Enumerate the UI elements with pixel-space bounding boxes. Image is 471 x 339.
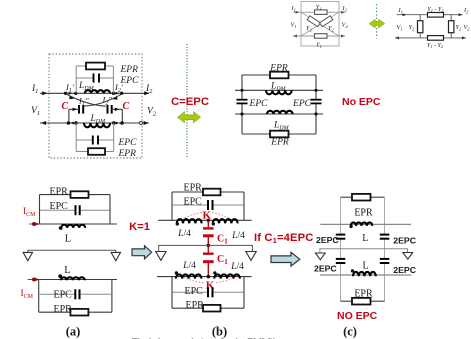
port triangle b-right <box>246 252 256 261</box>
caption (c) <box>343 325 357 339</box>
arrow bottom-left lattice <box>293 35 297 38</box>
resistor Y2 diag B <box>320 16 333 27</box>
arrow I2 lattice <box>341 11 345 14</box>
lattice box <box>301 2 339 47</box>
label L a-top <box>65 234 71 245</box>
SECTION: top-left integrated filter model <box>31 54 157 159</box>
label EPC right <box>292 99 312 109</box>
svg-text:K=1: K=1 <box>129 221 150 233</box>
SECTION: top-right lattice and equivalent <box>291 2 471 50</box>
svg-text:NO EPC: NO EPC <box>337 310 378 322</box>
connector wire a <box>28 249 116 251</box>
node dots line2 <box>67 121 124 125</box>
svg-text:(c): (c) <box>343 325 357 339</box>
wire EPR bottom branch <box>76 151 114 153</box>
label EPR top <box>120 65 139 75</box>
resistor Y1-Y2 top <box>428 13 444 18</box>
wire main line b-top <box>158 219 251 221</box>
wire EPC bottom branch <box>76 139 114 141</box>
svg-text:EPC: EPC <box>50 201 69 212</box>
wire main line a-top <box>33 223 117 225</box>
svg-text:L/4: L/4 <box>230 262 244 272</box>
label L/4 b-bottom-right <box>230 262 244 272</box>
svg-text:L: L <box>362 233 368 244</box>
label EPC bottom <box>118 138 138 148</box>
equiv left vertical wire <box>419 15 421 38</box>
svg-text:L: L <box>362 261 368 272</box>
svg-text:L/4: L/4 <box>182 261 196 271</box>
coupling dashes K bottom <box>184 278 235 283</box>
wire red K to C1 <box>207 219 210 228</box>
wire EPC branch a-bottom <box>39 293 112 295</box>
label 2EPC c-top-right <box>393 235 416 245</box>
wire right vertical b-bottom <box>243 277 245 309</box>
node dots line1 <box>64 92 124 95</box>
label Y1-Y2 top <box>427 7 444 13</box>
svg-text:EPC: EPC <box>249 99 269 109</box>
svg-text:Y1 - Y2: Y1 - Y2 <box>427 7 444 13</box>
wire right vertical b-top <box>243 192 245 220</box>
wire top line 1 <box>40 92 149 94</box>
capacitor C right <box>108 105 112 114</box>
arrow I1 in <box>42 91 47 95</box>
arrow cyan b-to-c <box>271 252 300 266</box>
label Y1 top lattice <box>316 4 322 11</box>
wire EPR top branch <box>242 74 316 76</box>
port triangle c-left <box>315 253 325 260</box>
label EPC a-top <box>50 201 69 212</box>
label LDM top <box>78 81 95 92</box>
arrow V1 out (left) <box>41 121 46 125</box>
inductor LDM bottom <box>84 123 110 127</box>
arrow green double 2 <box>369 19 384 28</box>
label EPC left <box>249 99 269 109</box>
resistor Y2 right equiv <box>449 21 454 33</box>
svg-text:EPC: EPC <box>54 289 73 300</box>
wire EPR branch a-bottom <box>39 311 112 313</box>
caption (a) <box>66 325 81 339</box>
svg-text:EPR: EPR <box>54 304 73 315</box>
arrow I1 lattice <box>296 11 300 14</box>
lattice top wire <box>293 11 345 13</box>
arrow bottom-right equiv <box>462 36 466 39</box>
resistor Y2 diag A <box>307 16 320 27</box>
label Y2 right equiv <box>456 24 463 31</box>
label L a-bottom <box>64 265 70 276</box>
label I2 <box>145 84 153 95</box>
wire drop b-mid-right <box>251 245 253 251</box>
wire mid line c <box>319 248 408 250</box>
label L c-top <box>362 233 368 244</box>
label 2EPC c-bottom-left <box>314 264 337 274</box>
svg-text:EPC: EPC <box>118 138 138 148</box>
equiv top wire <box>397 14 463 16</box>
label EPC a-bottom <box>54 289 73 300</box>
inductor L a-bottom <box>58 274 85 280</box>
arrow V2 out (right) <box>140 121 149 125</box>
arrow I1 equiv <box>403 13 407 16</box>
label EPR a-bottom <box>54 304 73 315</box>
svg-text:EPC: EPC <box>292 99 312 109</box>
caption (b) <box>212 325 227 339</box>
label V1 <box>31 106 40 117</box>
label EPR c-bottom <box>354 288 373 299</box>
svg-text:EPR: EPR <box>50 187 69 198</box>
inductor LDM 1 <box>266 90 292 94</box>
resistor EPR c-top <box>352 194 371 201</box>
wire right vertical a-top <box>109 195 111 224</box>
svg-text:EPR: EPR <box>269 64 288 74</box>
arrow bottom-left equiv <box>395 36 399 39</box>
label V1 lattice <box>291 22 297 29</box>
faint cropped caption text <box>132 337 286 339</box>
lattice bottom wire <box>293 35 345 37</box>
wire left vertical a-bottom <box>38 280 40 313</box>
wire vertical to top branch right <box>112 66 114 93</box>
crossing wire from line1 right to left cap <box>84 94 122 106</box>
arrow I2 out <box>144 91 149 95</box>
wire vertical to top branch left <box>75 66 77 93</box>
arrow on crossing wire left <box>69 96 74 100</box>
label 2EPC c-bottom-right <box>393 265 416 275</box>
label C1 upper <box>217 234 228 246</box>
label Y1 bottom lattice <box>316 42 322 49</box>
resistor EPR a-bottom <box>70 309 88 316</box>
svg-text:EPC: EPC <box>120 76 140 86</box>
resistor Y1 top <box>315 10 328 15</box>
wire main line b-bottom <box>157 276 252 278</box>
label V2 lattice <box>342 22 349 29</box>
label L/4 b-top-right <box>231 231 245 241</box>
wire EPR branch b-bottom <box>172 307 244 309</box>
svg-text:C=EPC: C=EPC <box>171 96 209 108</box>
capacitor C1 upper (red) <box>203 228 214 245</box>
inductor L/4 b-top-right <box>212 219 238 225</box>
svg-text:L: L <box>64 265 70 276</box>
label V2 <box>147 107 157 118</box>
node dots rail1 <box>240 89 317 92</box>
wire drop c-left <box>319 249 321 253</box>
wire stub right cap to line2 <box>121 109 123 123</box>
label V1 equiv <box>397 24 403 31</box>
dashed boundary box <box>49 54 142 158</box>
wire drop c-right <box>407 249 409 253</box>
crossing wire from line1 left to right cap <box>66 94 106 106</box>
port triangle a-right <box>111 250 120 260</box>
capacitor C1 lower (red) <box>203 245 214 276</box>
wire EPR branch c-top <box>341 196 385 198</box>
label L/4 b-top-left <box>177 229 191 239</box>
SECTION: separators and middle circuit <box>171 44 381 157</box>
label ICM a-top <box>23 207 36 218</box>
svg-text:Y1 - Y2: Y1 - Y2 <box>427 43 444 49</box>
label EPR a-top <box>50 187 69 198</box>
svg-text:EPR: EPR <box>118 149 137 159</box>
svg-text:L/4: L/4 <box>231 231 245 241</box>
svg-text:EPR: EPR <box>354 208 373 219</box>
resistor Y1 bottom <box>315 34 328 39</box>
wire EPR top branch <box>76 65 113 67</box>
port triangle b-left <box>156 252 166 261</box>
wire bottom line 2 <box>40 122 149 124</box>
wire EPC top branch <box>76 77 113 79</box>
svg-text:2EPC: 2EPC <box>393 235 416 245</box>
wire rail1 <box>235 89 323 91</box>
inductor LDM 2 <box>267 111 293 114</box>
inductor LDM top <box>85 90 110 93</box>
wire vertical to bottom branch right <box>113 123 115 152</box>
svg-text:L/4: L/4 <box>177 229 191 239</box>
wire left vertical b-bottom <box>171 277 173 309</box>
label L c-bottom <box>362 261 368 272</box>
wire right vertical c <box>384 197 386 301</box>
label EPR c-top <box>354 208 373 219</box>
wire left vertical a-top <box>39 195 41 224</box>
label K b-top <box>203 210 212 222</box>
lattice diagonal wire B <box>301 12 339 36</box>
svg-text:EPR: EPR <box>186 300 205 311</box>
svg-text:C: C <box>123 101 130 112</box>
capacitor 2EPC c-bottom-left <box>336 259 346 263</box>
wire rail1 c <box>320 223 411 225</box>
wire EPR branch a-top <box>40 194 111 196</box>
arrow on crossing wire right <box>113 96 118 100</box>
label LDM top <box>270 82 287 93</box>
svg-text:EPC: EPC <box>184 197 203 208</box>
arrow cyan a-to-b <box>132 246 152 259</box>
inductor L/4 b-bottom-left <box>175 271 202 278</box>
equiv right vertical wire <box>450 15 452 38</box>
arrow ICM a-top <box>29 222 39 226</box>
separator dotted line 2 <box>376 4 378 39</box>
inductor L/4 b-bottom-right <box>213 271 240 278</box>
wire rail2 c <box>320 274 411 276</box>
svg-text:No EPC: No EPC <box>342 96 381 108</box>
svg-text:EPR: EPR <box>184 183 203 194</box>
resistor EPR top <box>270 72 289 79</box>
wire EPC branch a-top <box>40 209 111 211</box>
svg-text:L: L <box>65 234 71 245</box>
no-EPC circuit: left vertical wire <box>241 75 243 134</box>
no-EPC circuit: right vertical wire <box>315 75 317 134</box>
wire rail2 <box>235 113 323 115</box>
inductor L c-bottom <box>351 269 376 276</box>
label V2 equiv <box>464 24 471 31</box>
arrow green double <box>178 112 201 123</box>
wire EPR branch b-top <box>172 191 244 193</box>
label I1 lattice <box>291 5 296 12</box>
label If C1=4EPC <box>254 232 314 245</box>
wire into left cap with arrow <box>69 108 79 112</box>
label EPC b-top <box>184 197 203 208</box>
wire vertical to bottom branch left <box>75 123 77 152</box>
svg-text:2EPC: 2EPC <box>316 235 339 245</box>
capacitor EPC a-top <box>76 205 80 215</box>
lattice diagonal wire A <box>301 12 339 36</box>
label NO EPC <box>337 310 378 322</box>
inductor L/4 b-top-left <box>176 219 202 225</box>
capacitor 2EPC c-top-right <box>380 235 390 239</box>
label No EPC <box>342 96 381 108</box>
capacitor EPC bottom <box>93 136 98 145</box>
label I2 lattice <box>342 5 348 12</box>
resistor EPR a-top <box>71 191 89 198</box>
label I2dprime <box>102 95 113 107</box>
wire stub left cap to line2 <box>68 109 70 123</box>
capacitor C left <box>79 105 83 114</box>
resistor Y1-Y2 bottom <box>428 36 444 41</box>
resistor EPR b-bottom <box>203 305 221 312</box>
svg-text:EPC: EPC <box>185 286 204 297</box>
capacitor EPC top <box>94 74 100 83</box>
arrow bottom-right lattice <box>341 35 345 38</box>
label EPR bottom <box>118 149 137 159</box>
label I1 equiv <box>398 7 403 14</box>
label EPR b-bottom <box>186 300 205 311</box>
label Y2 left equiv <box>409 24 416 31</box>
wire EPC branch b-bottom <box>172 291 244 293</box>
wire EPC branch b-top <box>172 204 244 206</box>
label I1 <box>31 84 38 95</box>
svg-text:(a): (a) <box>66 325 81 339</box>
svg-text:EPR: EPR <box>354 288 373 299</box>
svg-text:EPR: EPR <box>270 138 289 148</box>
label EPR b-top <box>184 183 203 194</box>
label L/4 b-bottom-left <box>182 261 196 271</box>
inductor L c-top <box>349 222 372 228</box>
node dots rail2 <box>240 112 317 115</box>
label C=EPC <box>171 96 209 108</box>
capacitor EPC right <box>311 100 322 104</box>
SECTION: bottom (c) <box>314 194 417 339</box>
label EPR bottom <box>270 138 289 148</box>
svg-text:2EPC: 2EPC <box>314 264 337 274</box>
resistor EPR bottom <box>88 148 105 155</box>
wire out of right cap with arrow <box>112 108 123 112</box>
capacitor 2EPC c-top-left <box>336 235 346 239</box>
capacitor EPC b-top <box>208 200 213 210</box>
label I2 equiv <box>463 7 469 14</box>
wire EPR bottom branch <box>242 133 316 135</box>
label EPC b-bottom <box>185 286 204 297</box>
label LDM bottom <box>90 114 107 125</box>
inductor L a-top <box>59 225 85 230</box>
wire main line a-bottom <box>28 279 117 281</box>
svg-text:If C1=4EPC: If C1=4EPC <box>254 232 314 245</box>
label 2EPC c-top-left <box>316 235 339 245</box>
SECTION: bottom (a) <box>21 187 152 339</box>
label EPC top <box>120 76 140 86</box>
label EPR top <box>269 64 288 74</box>
resistor EPR top <box>86 63 105 70</box>
SECTION: bottom (b) <box>132 183 314 339</box>
separator dotted line <box>186 44 188 157</box>
coupling dashes K top <box>182 213 233 221</box>
label C left <box>62 101 69 112</box>
resistor EPR b-top <box>203 189 221 196</box>
wire drop b-mid-left <box>158 245 160 251</box>
svg-text:EPR: EPR <box>120 65 139 75</box>
label K b-bottom <box>206 280 215 292</box>
arrow I2 equiv <box>459 13 463 16</box>
svg-text:(b): (b) <box>212 325 227 339</box>
wire right vertical a-bottom <box>111 280 113 313</box>
svg-text:C: C <box>62 101 69 112</box>
wire mid line b <box>158 244 253 246</box>
port triangle c-right <box>403 253 413 260</box>
wire left vertical c <box>340 197 342 301</box>
label Y2 right lattice <box>328 25 335 32</box>
label C1 lower <box>217 254 228 266</box>
capacitor EPC left <box>237 100 248 104</box>
equiv bottom wire <box>395 37 466 39</box>
label K=1 <box>129 221 150 233</box>
label Y2 left lattice <box>306 25 313 32</box>
wire EPR branch c-bottom <box>341 300 385 302</box>
wire left vertical b-top <box>171 192 173 220</box>
label I2prime <box>114 82 123 94</box>
resistor Y2 left equiv <box>418 21 423 33</box>
label C right <box>123 101 130 112</box>
label ICM a-bottom <box>21 289 34 300</box>
node dot b-bottom <box>207 275 211 279</box>
label I1dprime <box>78 96 89 108</box>
capacitor 2EPC c-bottom-right <box>380 259 390 263</box>
port triangle a-left <box>23 250 32 260</box>
capacitor EPC b-bottom <box>208 287 213 297</box>
label Y1-Y2 bottom <box>427 43 444 49</box>
capacitor EPC a-bottom <box>75 289 79 299</box>
svg-text:2EPC: 2EPC <box>393 265 416 275</box>
arrow ICM a-bottom <box>29 278 39 282</box>
resistor EPR c-bottom <box>352 298 371 305</box>
label I1prime <box>65 82 74 94</box>
node dot b-mid <box>207 244 211 248</box>
label LDM 2 <box>273 121 290 132</box>
resistor EPR bottom <box>270 131 289 138</box>
